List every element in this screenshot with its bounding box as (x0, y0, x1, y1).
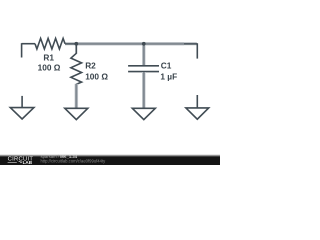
svg-text:100 Ω: 100 Ω (85, 71, 108, 81)
node junction dot B (C1 tap) (142, 42, 146, 46)
svg-text:LAB: LAB (23, 160, 33, 165)
svg-text:C1: C1 (161, 61, 172, 71)
svg-text:100 Ω: 100 Ω (38, 63, 61, 73)
wire: R2 top lead (75, 43, 77, 54)
svg-text:R2: R2 (85, 61, 96, 71)
CircuitLab logo (8, 156, 34, 165)
watermark bar (0, 154, 220, 165)
wire: GND4 stem (196, 95, 198, 108)
resistor R1 (35, 38, 65, 49)
ground GND4 (far right) (186, 108, 209, 119)
svg-text:http://circuitlab.com/c/ae0f99: http://circuitlab.com/c/ae0f99uf44ty (41, 158, 107, 163)
ground GND2 (below R2) (65, 108, 88, 119)
wire: C1 bottom lead to ground (soft) (142, 72, 146, 108)
wire: GND1 stem (21, 96, 23, 108)
wire: R2 bottom lead to ground (soft) (75, 84, 79, 108)
resistor R2 (71, 53, 82, 84)
wire: rail right end segment (184, 42, 197, 45)
wire: C1 top lead (soft) (142, 43, 146, 66)
svg-text:1 µF: 1 µF (160, 71, 177, 81)
wire: rail node A to right span (76, 42, 184, 46)
ground GND1 (far left) (10, 108, 34, 119)
wire: right terminal stub down (196, 43, 198, 58)
ground GND3 (below C1) (132, 108, 155, 119)
svg-text:R1: R1 (43, 52, 54, 62)
wire: rail left lead to R1 (22, 43, 35, 45)
wire: left terminal stub down (21, 43, 23, 57)
capacitor C1 (128, 66, 159, 72)
node junction dot A (R1/R2) (74, 42, 78, 46)
wire: rail R1 to node A (65, 42, 77, 45)
